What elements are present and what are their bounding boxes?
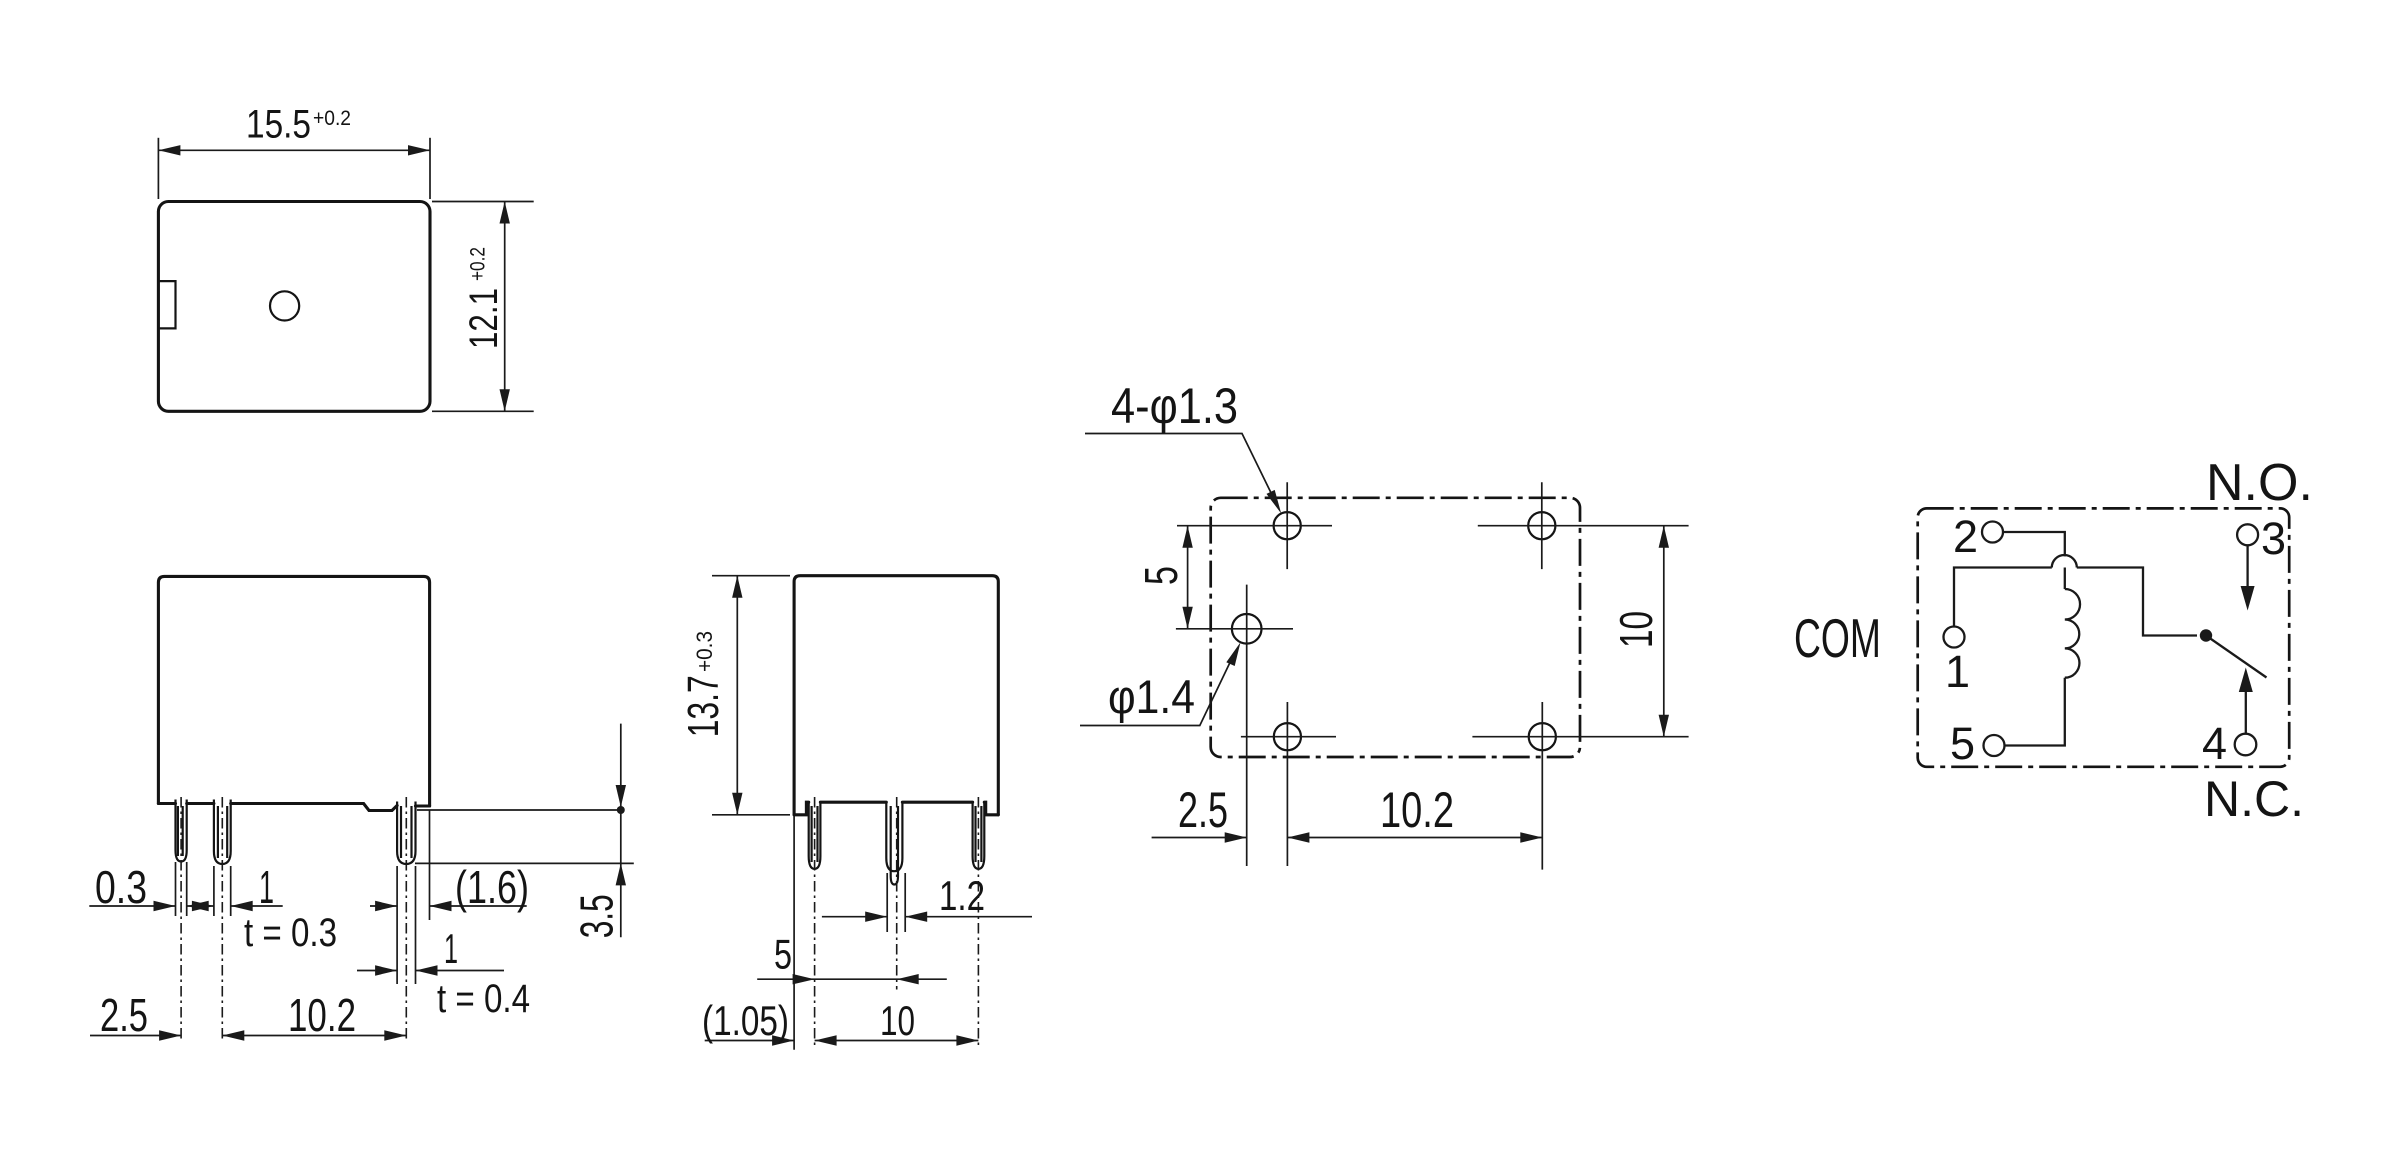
switch blade (2206, 636, 2267, 678)
svg-text:3: 3 (2261, 513, 2286, 564)
dimension (1.05) case edge to pin 1 (705, 1035, 794, 1045)
dimension 12.1 dimension line with arrows (500, 202, 510, 412)
dimension 2.5 (pin 1 to pin 2 pitch) (90, 1030, 181, 1040)
dimension 0.3 (pin 1 width) (89, 901, 214, 911)
svg-text:1: 1 (1945, 646, 1970, 697)
svg-text:+0.3: +0.3 (692, 631, 717, 672)
svg-text:(1.6): (1.6) (455, 861, 529, 913)
svg-text:3.5: 3.5 (571, 894, 623, 938)
hole top-right crosshair (1478, 482, 1689, 569)
pin 3 N.O. contact arrow (2241, 546, 2255, 611)
svg-text:13.7: 13.7 (679, 675, 728, 737)
dimension 15.5 extension lines (158, 138, 430, 199)
hole middle-left (COM pin 1, dia 1.4) (1232, 614, 1262, 644)
svg-text:N.C.: N.C. (2204, 771, 2304, 827)
front view: pin 3 (contact) (397, 802, 415, 865)
dimension 3.5 dimension line, arrows and dot (616, 724, 626, 938)
hole top-left (coil pin 2) (1274, 512, 1301, 539)
dimension 1 (pin 3 width) (357, 965, 504, 975)
svg-text:5: 5 (1950, 718, 1975, 769)
wire pin 2 to coil top (2003, 532, 2065, 556)
svg-text:t = 0.3: t = 0.3 (244, 911, 337, 955)
hole top-right (contact pin 3) (1528, 512, 1555, 539)
svg-text:(1.05): (1.05) (702, 997, 789, 1044)
svg-text:4: 4 (2202, 718, 2227, 769)
svg-text:1.2: 1.2 (939, 872, 985, 919)
dimension (1.6) pin 3 to case edge (370, 901, 527, 911)
svg-text:+0.2: +0.2 (467, 247, 490, 281)
side view: relay case outline with feet (794, 576, 998, 815)
svg-text:COM: COM (1794, 607, 1881, 669)
dimension 13.7 extension lines (712, 576, 790, 815)
svg-text:15.5: 15.5 (246, 103, 311, 147)
top view: side notch detail (158, 281, 175, 328)
dimension 5 (pin 1 to pin 2, side view) (757, 974, 947, 984)
svg-text:2: 2 (1953, 511, 1978, 562)
dimension text 12.1 +0.2 (rotated) (462, 247, 506, 349)
schematic pin 3 terminal (N.O.) (2237, 513, 2286, 564)
dimension 1 (pin 2 width) (192, 901, 283, 911)
hole top-left crosshair (1177, 482, 1332, 569)
svg-text:10.2: 10.2 (1380, 782, 1454, 838)
svg-text:+0.2: +0.2 (313, 107, 351, 130)
dimension 3.5 (pin length) extension lines (415, 810, 634, 863)
dimension text 13.7 +0.3 (rotated) (679, 631, 728, 737)
hole bottom-left crosshair (1241, 702, 1336, 866)
svg-text:12.1: 12.1 (462, 288, 506, 349)
dimension 15.5 dimension line with arrows (158, 145, 430, 155)
dimension 10.2 (pin 2 to pin 3 pitch) (222, 1030, 406, 1040)
svg-text:φ1.4: φ1.4 (1108, 670, 1195, 723)
schematic: boundary (dash-dot) (1918, 508, 2290, 766)
dimension 1.2 dimension line (822, 912, 1032, 922)
dimension 10.2 (bottom view) (1287, 832, 1542, 842)
hole bottom-right crosshair (1472, 702, 1688, 870)
dimension 1.2 (pin 2 width) extension lines (887, 873, 905, 932)
svg-text:5: 5 (774, 931, 792, 978)
front view: pin edge extension lines (176, 810, 430, 984)
svg-text:t = 0.4: t = 0.4 (437, 977, 530, 1021)
coil L (3 humps) (2065, 568, 2080, 678)
side view: pin 2 (longer middle pin) (886, 801, 902, 885)
dimension 10 (pin 1 to pin 3, side view) (815, 1035, 979, 1045)
svg-text:10: 10 (880, 997, 915, 1044)
label dia1.4 with leader (1080, 642, 1241, 725)
front view: pin 1 (coil) (176, 800, 187, 862)
dimension 2.5 (bottom view) (1152, 832, 1247, 842)
switch common node (dot) (2200, 629, 2212, 641)
hole middle-left crosshair (1176, 585, 1293, 866)
svg-text:N.O.: N.O. (2206, 454, 2313, 512)
schematic pin 4 terminal (N.C.) (2202, 718, 2256, 769)
front view: relay case outline (158, 576, 429, 810)
wire pin 1 riser to switch (with crossover hop) (1954, 555, 2197, 636)
svg-text:1: 1 (444, 925, 458, 972)
side view: pin 1 (809, 801, 821, 869)
front view: pin 2 (coil) (214, 800, 231, 865)
dimension 12.1 extension lines (432, 202, 534, 412)
side view: case edge extension line (793, 816, 795, 1050)
side view: pin centerlines (815, 797, 979, 1049)
hole bottom-left (coil pin 5) (1274, 723, 1301, 750)
svg-text:0.3: 0.3 (95, 861, 147, 913)
label 4-dia1.3 with leader (1085, 378, 1281, 514)
wire pin 5 to coil bottom (2005, 678, 2065, 746)
svg-text:4-φ1.3: 4-φ1.3 (1111, 378, 1238, 434)
dimension 10 (hole pitch, bottom view) (1659, 526, 1669, 737)
pin 4 N.C. contact arrow (2239, 668, 2253, 734)
svg-text:2.5: 2.5 (1178, 782, 1228, 838)
svg-text:10.2: 10.2 (288, 989, 356, 1041)
svg-text:2.5: 2.5 (100, 989, 148, 1041)
svg-text:1: 1 (259, 861, 274, 913)
svg-text:10: 10 (1610, 611, 1662, 648)
schematic pin 5 terminal (1950, 718, 2005, 769)
svg-text:5: 5 (1135, 566, 1187, 585)
dimension 13.7 dimension line with arrows (732, 576, 742, 815)
dimension text 15.5 +0.2 (246, 103, 351, 147)
schematic pin 2 terminal (1953, 511, 2003, 562)
side view: pin 3 (973, 801, 985, 869)
top view: center hole (270, 291, 299, 320)
bottom view: case outline (phantom dash-dot) (1211, 498, 1580, 757)
top view: relay case outline (158, 202, 430, 412)
front view: pin centerlines (181, 797, 406, 1042)
hole bottom-right (contact pin 4) (1529, 723, 1556, 750)
dimension 5 (hole pitch, bottom view) (1182, 526, 1192, 629)
schematic pin 1 terminal (COM) (1944, 627, 1971, 698)
